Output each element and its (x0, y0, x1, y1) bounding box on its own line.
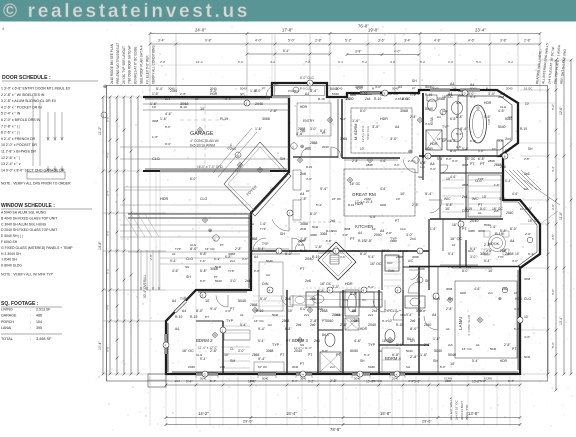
svg-text:16" OC: 16" OC (182, 349, 194, 353)
svg-text:HDR: HDR (300, 105, 308, 109)
svg-text:5'-4": 5'-4" (462, 147, 469, 151)
svg-text:5040: 5040 (215, 265, 222, 269)
svg-text:2'-8": 2'-8" (412, 203, 420, 207)
svg-text:SEE ROOF PLAN SHT A-4: SEE ROOF PLAN SHT A-4 (140, 45, 144, 84)
svg-text:5'-4": 5'-4" (258, 339, 265, 343)
svg-text:2040: 2040 (170, 89, 177, 93)
svg-text:2x4: 2x4 (488, 291, 493, 295)
svg-text:3068: 3068 (262, 117, 270, 121)
speckle lower quadrant (563, 414, 566, 417)
svg-text:1'-6": 1'-6" (260, 222, 266, 226)
svg-text:8d NAILS AT 6" OC EDGE: 8d NAILS AT 6" OC EDGE (134, 46, 138, 84)
svg-text:A4: A4 (450, 82, 454, 86)
svg-text:A4: A4 (254, 255, 258, 259)
svg-text:3'-0": 3'-0" (298, 243, 304, 247)
svg-text:2'-8": 2'-8" (446, 307, 453, 311)
svg-text:2x4: 2x4 (305, 147, 311, 151)
top dimension lines (150, 33, 540, 35)
svg-text:5'-6": 5'-6" (551, 342, 555, 348)
svg-text:3068: 3068 (462, 163, 469, 167)
svg-text:PT: PT (412, 87, 416, 91)
svg-text:1'-6": 1'-6" (420, 353, 428, 357)
garage marks (180, 119, 230, 121)
svg-text:6 2'-0" x BIFOLD DRS IN: 6 2'-0" x BIFOLD DRS IN (1, 118, 41, 122)
svg-text:INSUL TYP: INSUL TYP (465, 405, 469, 420)
svg-text:D 2040 SH FIXED GLASS TOP UN: D 2040 SH FIXED GLASS TOP UNIT (1, 228, 57, 232)
svg-text:A4: A4 (240, 313, 244, 317)
svg-text:9'-4": 9'-4" (210, 307, 218, 311)
svg-text:GARAGE: GARAGE (1, 314, 17, 318)
svg-text:SH: SH (280, 157, 286, 161)
svg-text:3068: 3068 (418, 267, 425, 271)
svg-text:6'-8": 6'-8" (448, 265, 454, 269)
svg-text:A4: A4 (432, 313, 436, 317)
svg-text:A4: A4 (266, 273, 270, 277)
svg-text:7 2'-8" x " |: 7 2'-8" x " | | (1, 124, 20, 128)
svg-text:5 2'-4" x " IN: 5 2'-4" x " IN (1, 112, 21, 116)
svg-text:2040: 2040 (188, 365, 195, 369)
svg-text:R-19: R-19 (256, 309, 263, 313)
svg-text:B: B (486, 87, 488, 91)
svg-text:HDR: HDR (345, 282, 353, 286)
svg-text:9'-4": 9'-4" (382, 319, 388, 323)
svg-text:A4: A4 (172, 252, 176, 256)
svg-text:A4: A4 (508, 115, 512, 119)
svg-text:9'-4": 9'-4" (406, 313, 413, 317)
svg-text:5'-0": 5'-0" (106, 230, 110, 236)
svg-text:2x4: 2x4 (330, 365, 335, 369)
svg-text:PT: PT (480, 162, 486, 166)
svg-text:R-19: R-19 (318, 97, 325, 101)
svg-text:12 2'-6" x " |: 12 2'-6" x " | (1, 156, 20, 160)
svg-text:4'-6": 4'-6" (456, 101, 462, 105)
master closets (440, 172, 503, 174)
svg-text:3068: 3068 (310, 233, 317, 237)
svg-text:10': 10' (446, 177, 451, 181)
svg-text:3'-0": 3'-0" (390, 137, 398, 141)
svg-text:A 5040 SH ALUM SGL HUNG: A 5040 SH ALUM SGL HUNG (1, 211, 46, 215)
bdrm2 closet shelves (253, 295, 285, 297)
svg-text:2x4: 2x4 (230, 259, 235, 263)
svg-text:50'-4" OVERALL: 50'-4" OVERALL (143, 274, 147, 298)
svg-text:2x4: 2x4 (175, 379, 180, 383)
svg-text:DIN: DIN (262, 282, 269, 286)
svg-text:SH: SH (425, 279, 430, 283)
svg-text:5'-8": 5'-8" (414, 380, 420, 384)
svg-text:⊕: ⊕ (208, 228, 212, 234)
svg-text:8'-0": 8'-0" (165, 125, 171, 129)
patio hatch (124, 214, 138, 237)
svg-text:3068: 3068 (400, 109, 408, 113)
svg-text:SH: SH (185, 265, 189, 269)
svg-text:3'-8": 3'-8" (551, 234, 555, 240)
svg-text:2040: 2040 (294, 349, 302, 353)
svg-text:8'-0": 8'-0" (196, 309, 204, 313)
diagonal window break (175, 301, 186, 312)
svg-text:2x6: 2x6 (220, 365, 225, 369)
svg-text:A4: A4 (358, 231, 362, 235)
svg-text:KITCHEN: KITCHEN (355, 224, 373, 229)
svg-text:5'-4": 5'-4" (425, 192, 433, 196)
svg-text:M. BDRM: M. BDRM (354, 124, 358, 140)
closets (224, 325, 250, 327)
svg-text:12'-6": 12'-6" (559, 106, 563, 115)
svg-text:SH: SH (300, 343, 304, 347)
svg-text:B: B (504, 155, 506, 159)
svg-text:8'-0": 8'-0" (440, 365, 446, 369)
svg-text:3,498 SF: 3,498 SF (36, 337, 52, 341)
svg-text:2868: 2868 (462, 183, 469, 187)
svg-text:SH: SH (418, 175, 422, 179)
svg-text:3'-6": 3'-6" (378, 39, 386, 43)
svg-text:10': 10' (306, 189, 310, 193)
svg-text:6'-8": 6'-8" (480, 379, 486, 383)
svg-text:2'-8": 2'-8" (315, 39, 323, 43)
svg-text:CLG: CLG (196, 353, 203, 357)
svg-text:5'-4": 5'-4" (472, 359, 478, 363)
roof overhang outline (107, 86, 548, 382)
svg-text:4 2'-6" x " POCKET DR: 4 2'-6" x " POCKET DR IN (1, 105, 42, 109)
svg-text:4" CONC SLAB: 4" CONC SLAB (467, 315, 471, 336)
entry gallery (297, 103, 331, 136)
foyer angled walls (224, 142, 291, 216)
svg-text:3068: 3068 (468, 229, 475, 233)
svg-text:78'-8": 78'-8" (330, 427, 341, 432)
svg-text:10': 10' (514, 291, 518, 295)
svg-text:4'-2: 4'-2 (270, 60, 275, 64)
svg-text:3'-2: 3'-2 (508, 60, 513, 64)
svg-text:10': 10' (372, 227, 376, 231)
svg-text:4'-6": 4'-6" (498, 139, 504, 143)
svg-text:TOTAL: TOTAL (1, 337, 13, 341)
svg-text:A4: A4 (300, 192, 304, 196)
svg-text:16" OC: 16" OC (398, 249, 409, 253)
svg-text:A4: A4 (398, 85, 402, 89)
svg-text:7/16 OSB ROOF SHTG W/: 7/16 OSB ROOF SHTG W/ (128, 45, 132, 84)
svg-text:STEP CLG: STEP CLG (366, 126, 370, 140)
svg-text:10': 10' (445, 207, 450, 211)
svg-text:16" OC: 16" OC (372, 379, 383, 383)
svg-text:2040: 2040 (424, 323, 432, 327)
svg-text:2x6: 2x6 (310, 297, 316, 301)
svg-text:2x6: 2x6 (305, 279, 311, 283)
svg-text:TYP: TYP (272, 343, 280, 347)
svg-text:10': 10' (352, 309, 357, 313)
diagonal dim line by diamond (213, 128, 252, 173)
windows left wall and top (165, 334, 167, 354)
svg-text:6'-8": 6'-8" (450, 139, 457, 143)
electrical symbols (213, 333, 217, 337)
svg-text:17'-8": 17'-8" (282, 28, 293, 33)
svg-text:3'-0": 3'-0" (332, 285, 340, 289)
svg-text:2,513 SF: 2,513 SF (36, 308, 51, 312)
svg-text:A/C: A/C (408, 259, 414, 263)
svg-text:4'-6": 4'-6" (306, 177, 312, 181)
svg-text:6'-8": 6'-8" (478, 157, 486, 161)
svg-text:CLG: CLG (442, 109, 448, 113)
svg-text:16" OC: 16" OC (258, 365, 267, 369)
svg-text:2x6: 2x6 (354, 319, 359, 323)
svg-text:A4: A4 (430, 162, 435, 166)
svg-text:5'-4": 5'-4" (316, 203, 322, 207)
svg-text:6'-0": 6'-0" (551, 289, 555, 295)
svg-text:3068: 3068 (498, 95, 505, 99)
svg-text:⊕: ⊕ (498, 296, 502, 301)
svg-text:16" OC: 16" OC (442, 95, 454, 99)
svg-text:R-19: R-19 (358, 239, 365, 243)
svg-text:PT: PT (395, 219, 399, 223)
svg-text:2x6: 2x6 (502, 287, 507, 291)
svg-text:2'-8": 2'-8" (524, 39, 532, 43)
svg-text:2040: 2040 (368, 323, 376, 327)
svg-text:1 3'-0" x 6'-8" ENTRY DOOR: 1 3'-0" x 6'-8" ENTRY DOOR MTL INSUL EX (1, 87, 71, 91)
svg-text:15'-4": 15'-4" (286, 411, 297, 416)
svg-text:R-19: R-19 (175, 315, 182, 319)
svg-text:6'-8": 6'-8" (322, 349, 328, 353)
svg-text:CL: CL (230, 347, 234, 351)
svg-text:10': 10' (525, 102, 530, 106)
svg-text:10': 10' (452, 243, 456, 247)
svg-text:2x4: 2x4 (304, 313, 309, 317)
garage bottom wall (143, 170, 289, 172)
svg-text:5'-4": 5'-4" (156, 87, 164, 91)
svg-text:9'-8": 9'-8" (205, 39, 213, 43)
svg-text:2x4 AT 16" OC: 2x4 AT 16" OC (454, 400, 458, 420)
svg-text:2868: 2868 (252, 353, 260, 357)
svg-text:10': 10' (488, 269, 493, 273)
svg-text:2868: 2868 (282, 319, 290, 323)
svg-text:3'-0": 3'-0" (551, 204, 555, 210)
svg-text:PT: PT (220, 243, 224, 247)
svg-text:9'-2": 9'-2" (308, 380, 314, 384)
svg-text:LIN: LIN (420, 165, 425, 169)
svg-text:10': 10' (250, 379, 254, 383)
svg-text:5040: 5040 (498, 125, 506, 129)
svg-text:10': 10' (205, 299, 210, 303)
svg-text:1'-6": 1'-6" (152, 135, 158, 139)
svg-text:5'-6: 5'-6 (476, 60, 481, 64)
svg-text:8'-0": 8'-0" (525, 207, 533, 211)
svg-text:2 2'-8" x " W/ SIDELITE: 2 2'-8" x " W/ SIDELITES IN (1, 93, 45, 97)
svg-text:G FIXED GLASS (MITERED) PANEL: G FIXED GLASS (MITERED) PANELS + TEMP (1, 246, 73, 250)
svg-text:SQ. FOOTAGE :: SQ. FOOTAGE : (1, 301, 39, 307)
svg-text:A4: A4 (305, 92, 309, 96)
svg-text:4'-4": 4'-4" (551, 166, 555, 172)
svg-text:6'-4": 6'-4" (283, 49, 290, 53)
svg-text:TYP: TYP (368, 343, 376, 347)
svg-text:R-19: R-19 (326, 229, 333, 233)
svg-text:10': 10' (270, 187, 275, 191)
foyer arc (272, 213, 289, 231)
svg-text:TUB: TUB (487, 119, 491, 125)
svg-text:4'-6": 4'-6" (342, 233, 348, 237)
svg-text:F.F. ELEV 0'-0" REF.: F.F. ELEV 0'-0" REF. (145, 55, 149, 84)
svg-text:3'-0": 3'-0" (238, 349, 245, 353)
svg-text:4'-6": 4'-6" (498, 109, 506, 113)
svg-text:A4: A4 (470, 83, 474, 87)
svg-text:B: B (372, 87, 374, 91)
svg-text:9'-4": 9'-4" (170, 259, 177, 263)
nook steps (505, 170, 525, 190)
svg-text:16" OC: 16" OC (332, 197, 341, 201)
svg-text:1'-6": 1'-6" (484, 115, 492, 119)
svg-text:CLG: CLG (524, 297, 531, 301)
svg-text:3068: 3068 (340, 137, 347, 141)
svg-text:3'-0": 3'-0" (478, 149, 484, 153)
svg-text:A4: A4 (195, 97, 199, 101)
svg-text:10': 10' (492, 147, 496, 151)
svg-text:4'-6": 4'-6" (354, 339, 362, 343)
svg-text:16" OC: 16" OC (450, 237, 463, 241)
svg-text:8'-0": 8'-0" (165, 142, 171, 146)
breakfast nook (480, 223, 520, 225)
svg-text:2040: 2040 (364, 197, 371, 201)
svg-text:4'-6": 4'-6" (512, 192, 518, 196)
svg-text:16" OC: 16" OC (442, 139, 451, 143)
svg-text:2'-8": 2'-8" (500, 249, 508, 253)
svg-text:2868: 2868 (298, 127, 306, 131)
svg-text:2x6: 2x6 (300, 172, 306, 176)
svg-text:5040: 5040 (262, 377, 269, 381)
svg-text:HDR: HDR (425, 147, 433, 151)
svg-text:HDR: HDR (380, 203, 386, 207)
svg-text:10'-4": 10'-4" (98, 341, 102, 350)
svg-text:8'-0": 8'-0" (462, 269, 469, 273)
svg-text:4'-0": 4'-0" (106, 304, 110, 310)
svg-text:2'-8": 2'-8" (330, 379, 338, 383)
svg-text:HDR: HDR (380, 117, 388, 121)
svg-text:1'-6": 1'-6" (152, 92, 160, 96)
svg-text:2'-8": 2'-8" (210, 349, 218, 353)
svg-text:4'-8: 4'-8 (390, 60, 395, 64)
svg-text:8'-0": 8'-0" (510, 227, 518, 231)
svg-text:16" OC: 16" OC (382, 339, 393, 343)
svg-text:2868: 2868 (310, 141, 318, 145)
svg-text:1'-6": 1'-6" (433, 337, 441, 341)
svg-text:5040: 5040 (406, 349, 413, 353)
svg-text:2x4: 2x4 (230, 147, 236, 151)
svg-text:29'-6": 29'-6" (243, 420, 253, 424)
svg-text:6'-0: 6'-0 (238, 60, 243, 64)
svg-text:2x6: 2x6 (524, 172, 530, 176)
windows bottom wall (196, 373, 218, 375)
svg-text:2x6: 2x6 (296, 323, 301, 327)
svg-text:10': 10' (482, 195, 487, 199)
svg-text:9'-4": 9'-4" (258, 357, 266, 361)
svg-text:2x6: 2x6 (326, 249, 331, 253)
linen closet hatch (345, 318, 359, 330)
svg-text:16" OC: 16" OC (492, 207, 503, 211)
misc interior double lines (318, 252, 343, 254)
svg-text:4'-6": 4'-6" (165, 112, 173, 116)
great room builtins (293, 170, 301, 190)
patio extra lines (160, 257, 251, 259)
svg-text:3068: 3068 (152, 119, 159, 123)
bath 3 (325, 334, 335, 347)
svg-text:SH: SH (230, 359, 236, 363)
svg-text:3068: 3068 (478, 229, 485, 233)
svg-text:HDR: HDR (355, 202, 363, 206)
svg-text:2'-8": 2'-8" (524, 157, 530, 161)
svg-text:B 4040 SH FIXED GLASS TOP UN: B 4040 SH FIXED GLASS TOP UNIT (1, 216, 57, 220)
svg-text:HDR: HDR (484, 223, 491, 227)
svg-text:TYP: TYP (442, 125, 449, 129)
svg-text:5'-4": 5'-4" (210, 379, 216, 383)
svg-text:LANAI: LANAI (458, 317, 463, 330)
svg-text:9'-4": 9'-4" (460, 127, 468, 131)
svg-text:2'-8": 2'-8" (318, 289, 325, 293)
svg-text:2'-8": 2'-8" (504, 343, 511, 347)
right dimension lines (547, 90, 549, 374)
great room (344, 169, 415, 216)
svg-text:5040: 5040 (240, 87, 247, 91)
svg-text:4'-6": 4'-6" (375, 85, 381, 89)
svg-text:PT: PT (505, 149, 509, 153)
svg-text:R-19: R-19 (312, 255, 319, 259)
svg-text:CLG: CLG (390, 309, 398, 313)
svg-text:R-19: R-19 (180, 105, 187, 109)
svg-text:© realestateinvest.us: © realestateinvest.us (3, 1, 250, 22)
svg-text:ALL EXT WALLS: ALL EXT WALLS (449, 397, 453, 420)
svg-text:3'-4": 3'-4" (404, 39, 412, 43)
svg-text:WIC: WIC (444, 197, 451, 201)
svg-text:3068: 3068 (446, 287, 453, 291)
svg-text:4'-8": 4'-8" (434, 39, 442, 43)
svg-text:15'-8": 15'-8" (380, 411, 391, 416)
svg-text:SH: SH (240, 92, 244, 96)
svg-text:8'-0": 8'-0" (446, 157, 452, 161)
door schedule connector lines (32, 95, 34, 166)
hall walls (251, 250, 318, 252)
svg-text:2040: 2040 (506, 211, 514, 215)
svg-text:1'-6": 1'-6" (255, 127, 263, 131)
svg-text:PT: PT (205, 315, 209, 319)
svg-text:4'-0": 4'-0" (255, 39, 263, 43)
svg-text:4'-6": 4'-6" (340, 255, 346, 259)
svg-text:5'-4": 5'-4" (500, 229, 508, 233)
nook table & chairs (489, 235, 506, 252)
svg-text:9 2'-4" x FRENCH DR: 9 2'-4" x FRENCH DR (1, 137, 36, 141)
svg-text:3'-8": 3'-8" (355, 50, 361, 54)
svg-text:5'-4": 5'-4" (364, 353, 370, 357)
great room arches (253, 238, 266, 251)
svg-text:PT: PT (336, 353, 341, 357)
svg-text:3'-0": 3'-0" (230, 279, 237, 283)
patio slab lines (124, 186, 251, 188)
svg-text:ENTRY: ENTRY (303, 119, 315, 123)
svg-text:6'-8": 6'-8" (446, 203, 454, 207)
svg-text:HDR: HDR (350, 93, 356, 97)
svg-text:2x6: 2x6 (452, 87, 457, 91)
svg-text:1'-6": 1'-6" (200, 259, 206, 263)
svg-text:SH: SH (448, 297, 453, 301)
svg-text::: : (30, 337, 31, 341)
svg-text:7'-8: 7'-8 (305, 60, 310, 64)
svg-text:J 2040 SH: J 2040 SH (1, 258, 17, 262)
bottom rooms extra details (254, 362, 284, 372)
svg-text:1'-6": 1'-6" (494, 183, 500, 187)
svg-text:2868: 2868 (250, 303, 258, 307)
svg-text:CLG: CLG (400, 313, 406, 317)
svg-text:10': 10' (450, 362, 455, 366)
svg-text:PT: PT (470, 162, 474, 166)
svg-text:⊕: ⊕ (408, 149, 412, 155)
svg-text:SH: SH (280, 232, 285, 236)
svg-text:A4: A4 (182, 309, 186, 313)
svg-text:29'-6": 29'-6" (422, 420, 432, 424)
svg-text:TYP: TYP (478, 177, 484, 181)
svg-text:10': 10' (524, 315, 529, 319)
